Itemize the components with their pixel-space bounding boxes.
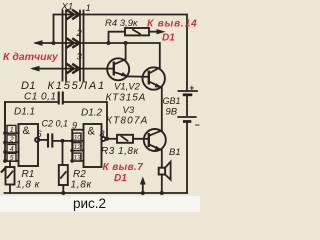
battery GB1 cell2 short plate (183, 120, 191, 123)
svg-text:B1: B1 (169, 147, 181, 158)
battery dashed link (186, 96, 188, 115)
D1.2 input lead pin9 (72, 129, 83, 131)
wire pin6 to C2 (39, 139, 47, 141)
gate D1.1 box (19, 124, 39, 166)
wire X1 pin2 row to V2 collector (36, 43, 160, 68)
pin number box 12 (73, 143, 81, 152)
svg-text:V1,V2: V1,V2 (114, 81, 141, 92)
connector X1 right contact lines (80, 11, 84, 81)
capacitor C1 feedback wire right and down to pin8 node (64, 102, 107, 139)
svg-text:D1.1: D1.1 (14, 107, 35, 118)
svg-text:2: 2 (76, 28, 83, 39)
D1.1 input lead pin2 (3, 141, 18, 145)
node R2 tap (61, 139, 65, 143)
svg-text:12: 12 (74, 144, 82, 151)
svg-text:–: – (195, 120, 200, 130)
pin number box 5 (7, 153, 16, 162)
wire V3 emitter to speaker (161, 150, 163, 168)
svg-text:рис.2: рис.2 (73, 196, 106, 211)
D1.2 input bus (71, 130, 73, 161)
svg-text:R2: R2 (73, 169, 86, 180)
capacitor C1 (59, 92, 63, 105)
D1.1 input lead pin1 (3, 131, 18, 135)
svg-text:R4 3,9к: R4 3,9к (105, 18, 138, 29)
svg-text:К выв.7: К выв.7 (103, 162, 144, 173)
wire bottom ground rail (5, 192, 188, 194)
svg-text:1,8 к: 1,8 к (16, 180, 41, 191)
svg-text:3: 3 (77, 52, 83, 63)
wire V1 collector (125, 43, 127, 59)
svg-text:13: 13 (74, 155, 82, 162)
svg-text:V3: V3 (123, 105, 135, 116)
svg-text:10: 10 (74, 135, 82, 142)
svg-text:8: 8 (100, 129, 105, 139)
wire R1 bottom (9, 185, 11, 194)
svg-text:К датчику: К датчику (3, 51, 59, 63)
svg-text:К155ЛА1: К155ЛА1 (48, 80, 106, 92)
node R4 tap (107, 41, 111, 45)
node V1 collector tap (124, 41, 128, 45)
svg-text:КТ315А: КТ315А (106, 93, 147, 104)
D1.1 output bubble pin6 (35, 138, 39, 142)
connector chevrons contact 2 (67, 38, 80, 48)
battery GB1 cell1 long plate (179, 90, 198, 92)
connector chevrons contact 1 (67, 10, 80, 20)
resistor R4 branch wire (109, 32, 126, 43)
speaker B1 (159, 162, 171, 180)
node feedback junction (105, 137, 109, 141)
svg-text:GB1: GB1 (163, 96, 181, 106)
resistor R1 (1, 167, 15, 185)
svg-text:4: 4 (10, 146, 14, 153)
battery GB1 cell2 long plate (178, 116, 195, 118)
resistor R4 (125, 28, 149, 35)
node junction pins1-2 (52, 41, 56, 45)
caption strip background (0, 196, 200, 212)
gate D1.2 box (84, 124, 102, 167)
paper background (0, 0, 200, 212)
connector X1 left contact lines (63, 11, 67, 81)
svg-text:9: 9 (72, 120, 77, 130)
pin number box 4 (7, 144, 16, 153)
wire arrow to sensor (pin 3) (30, 66, 40, 72)
svg-text:6: 6 (37, 129, 42, 139)
svg-text:D1: D1 (21, 80, 36, 92)
svg-text:1,8к: 1,8к (71, 180, 93, 191)
svg-text:C1 0,1: C1 0,1 (24, 92, 56, 103)
wire battery minus down to rail (186, 122, 188, 194)
svg-text:1: 1 (86, 3, 91, 14)
transistor V1 (107, 58, 129, 80)
resistor R2 (59, 165, 68, 185)
wire V2 emitter down to V3 collector (161, 88, 163, 131)
wire R4 to pin14 arrow (149, 31, 158, 33)
svg-text:2: 2 (9, 137, 14, 144)
D1.2 input lead pin12 (70, 149, 83, 153)
wire R2 bottom (61, 185, 65, 195)
wire X1 pin3 to V1 base (33, 68, 114, 70)
resistor R1 top lead (9, 161, 11, 167)
wire arrow to pin7 (140, 177, 146, 196)
battery GB1 cell1 short plate (183, 93, 193, 96)
pin number box 1 (7, 125, 16, 134)
D1.2 output bubble pin8 (101, 137, 105, 141)
svg-text:&: & (23, 125, 31, 137)
wire pin8 to R3 (105, 138, 117, 140)
D1.2 input lead pin13 (70, 159, 83, 163)
arrowhead to pin 14 (157, 29, 166, 34)
resistor R2 top lead (62, 141, 65, 165)
svg-text:9В: 9В (166, 107, 178, 118)
svg-text:R3 1,8к: R3 1,8к (101, 146, 139, 157)
pin number box 2 (7, 135, 16, 144)
transistor V2 (143, 67, 165, 89)
svg-text:R1: R1 (22, 169, 35, 180)
svg-text:D1: D1 (114, 173, 127, 184)
svg-text:D1: D1 (162, 33, 175, 44)
svg-text:+: + (190, 84, 195, 93)
D1.1 input lead pin5 (3, 159, 18, 163)
wire V1 emitter to V2 base (128, 75, 149, 77)
capacitor C2 (48, 133, 52, 147)
capacitor C1 feedback wire left (5, 102, 58, 129)
svg-text:C2 0,1: C2 0,1 (42, 119, 69, 129)
D1.1 input lead pin4 (3, 150, 18, 154)
pin number box 10 (73, 133, 81, 142)
svg-text:X1: X1 (61, 2, 74, 13)
wire arrow to sensor (pins 1,2) (33, 40, 43, 46)
svg-text:К выв.14: К выв.14 (147, 19, 198, 30)
wire top rail from X1 pin1 to battery plus (54, 15, 188, 92)
svg-text:D1.2: D1.2 (81, 108, 103, 119)
wire C2 to D1.2 input bus (54, 140, 73, 142)
svg-text:КТ807А: КТ807А (106, 116, 149, 127)
svg-text:&: & (88, 126, 96, 138)
D1.1 input bus (4, 102, 6, 161)
wire R3 to V3 base (133, 138, 149, 140)
transistor V3 (144, 129, 166, 151)
connector chevrons contact 3 (67, 64, 80, 74)
wire speaker to ground rail (160, 175, 164, 196)
D1.2 input lead pin10 (70, 139, 83, 143)
resistor R3 (117, 135, 133, 143)
pin number box 13 (73, 153, 81, 162)
svg-text:1: 1 (10, 127, 14, 134)
